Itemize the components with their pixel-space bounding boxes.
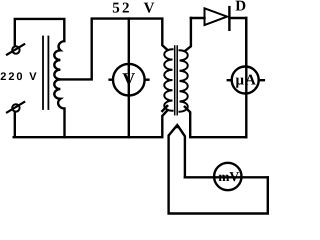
svg-text:52: 52 (112, 1, 131, 17)
svg-text:D: D (235, 0, 246, 15)
svg-text:220 V: 220 V (0, 71, 38, 83)
svg-text:mV: mV (218, 169, 239, 184)
svg-text:V: V (122, 69, 135, 89)
svg-text:V: V (144, 1, 155, 17)
svg-text:μA: μA (236, 73, 257, 89)
